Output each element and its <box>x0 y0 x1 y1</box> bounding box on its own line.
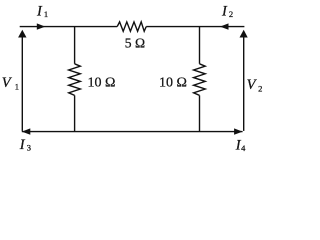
svg-text:V: V <box>2 75 13 91</box>
resistor R3 10ohm zigzag right <box>194 64 206 96</box>
arrowhead I1 current arrow <box>37 23 46 29</box>
svg-text:2: 2 <box>258 84 262 94</box>
svg-text:3: 3 <box>27 142 31 152</box>
arrowhead I4 current arrow <box>234 128 243 134</box>
svg-text:1: 1 <box>44 9 48 19</box>
svg-text:V: V <box>247 77 258 93</box>
arrowhead I3 current arrow <box>22 128 31 134</box>
svg-text:5 Ω: 5 Ω <box>125 36 145 51</box>
wire top left segment <box>20 26 118 28</box>
resistor R2 5ohm zigzag <box>117 22 146 31</box>
wire top right segment <box>146 26 244 28</box>
svg-text:10 Ω: 10 Ω <box>88 75 116 90</box>
wire left shunt branch top lead <box>74 27 76 64</box>
resistor R1 10ohm zigzag left <box>69 64 81 96</box>
wire bottom <box>22 131 243 133</box>
svg-text:1: 1 <box>15 82 19 92</box>
svg-text:10 Ω: 10 Ω <box>159 75 187 90</box>
wire V2 reference line <box>243 37 245 131</box>
svg-text:2: 2 <box>229 9 233 19</box>
svg-text:I: I <box>221 4 228 20</box>
svg-text:4: 4 <box>241 143 246 153</box>
wire right shunt branch bottom lead <box>199 95 201 131</box>
arrowhead V2 voltage arrow <box>240 30 248 38</box>
svg-text:I: I <box>36 4 43 20</box>
wire V1 reference line <box>21 37 23 131</box>
arrowhead V1 voltage arrow <box>18 30 26 38</box>
wire left shunt branch bottom lead <box>74 95 76 131</box>
arrowhead I2 current arrow <box>220 23 229 29</box>
svg-text:I: I <box>19 137 26 153</box>
wire right shunt branch top lead <box>199 27 201 64</box>
